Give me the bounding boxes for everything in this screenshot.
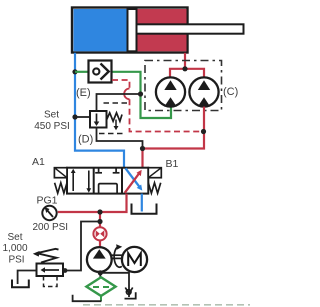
valve V1 right spring	[148, 183, 160, 193]
valve V1 left spring	[55, 183, 67, 193]
valve V1 right solenoid	[148, 168, 161, 178]
wire: red line from cylinder rod side down to motor manifold	[184, 53, 186, 69]
system relief valve vent dashed line	[44, 276, 58, 287]
valve V1 right envelope red flow arrow	[125, 174, 139, 193]
drain check glyph	[126, 290, 131, 295]
node: junction blue line / green branch	[72, 69, 77, 74]
svg-text:PG1: PG1	[37, 195, 58, 207]
relief valve D body	[90, 111, 107, 128]
svg-text:Set: Set	[7, 232, 22, 243]
cylinder cap-side fluid (blue)	[74, 9, 128, 51]
node: pump suction junction	[98, 270, 103, 275]
relief valve D drain line to red work line	[97, 128, 143, 149]
node: junction green line / relief D top line	[138, 91, 143, 96]
system relief valve outlet to tank	[18, 271, 37, 285]
svg-text:B1: B1	[166, 158, 179, 170]
reservoir boundary dash line	[83, 304, 250, 306]
piston	[128, 9, 137, 51]
wire: red motor supply manifold	[170, 69, 204, 78]
valve V1 center envelope blocked port A	[98, 168, 100, 173]
svg-text:(C): (C)	[223, 86, 238, 98]
filter F1 diamond	[86, 277, 115, 296]
filter suction stub	[100, 296, 102, 301]
wire: blue tank return below valve	[141, 194, 143, 212]
electric motor M	[122, 247, 147, 272]
node: junction pilot / red work line	[201, 129, 206, 134]
wire: red vertical pump riser	[99, 212, 101, 228]
wire: pump suction stub	[99, 272, 101, 278]
tank symbol under valve	[132, 204, 157, 214]
filter F1 element dashes	[93, 286, 110, 288]
directional valve V1 envelopes	[67, 168, 148, 194]
svg-text:A1: A1	[32, 156, 45, 168]
node: junction on red manifold	[182, 66, 187, 71]
system relief valve body	[37, 264, 64, 277]
relief valve D dashed pilot marks (bottom)	[99, 133, 125, 135]
wire: red line right motor bottom to valve B1	[143, 107, 205, 169]
wire: blue work line from cylinder cap side down to valve	[75, 53, 124, 169]
valve V1 center envelope blocked port B	[115, 168, 117, 173]
relief valve D pilot arrow below spring	[115, 120, 117, 128]
rotation arrow	[114, 247, 122, 267]
gauge PG1	[42, 206, 56, 220]
valve V1 right envelope blue flow arrow	[126, 168, 140, 187]
pilot line: red dashed from check valve E to red work line	[112, 80, 130, 89]
relief valve D spring	[107, 113, 123, 121]
valve V1 left solenoid	[54, 168, 67, 178]
cylinder rod-side fluid (red)	[137, 9, 187, 51]
valve V1 left envelope up arrow	[72, 172, 74, 191]
node: junction blue line / relief D tap	[72, 114, 77, 119]
quick disconnect coupling	[93, 227, 106, 240]
node: junction system relief tap	[97, 219, 102, 224]
system relief valve tap line	[63, 222, 100, 271]
relief valve D tap line from blue line	[75, 116, 90, 118]
relief valve D top line to green junction	[97, 94, 141, 111]
relief valve D dashed pilot marks (top)	[104, 102, 129, 104]
drain line to small tank	[100, 273, 129, 297]
motor C left	[156, 77, 185, 106]
svg-text:1,000: 1,000	[2, 243, 27, 254]
wire: green line from blue junction into check valve E	[75, 71, 89, 73]
check valve E poppet circle	[93, 68, 99, 74]
svg-text:Set: Set	[44, 110, 59, 121]
pilot line crossover hop over black line	[124, 89, 129, 100]
relief valve D internal arrow	[96, 114, 98, 123]
system relief valve internal arrow	[44, 269, 59, 271]
system relief valve spring with adjust arrow	[37, 249, 59, 263]
tank symbol (system relief)	[12, 280, 29, 288]
motor assembly enclosure box C (dash-dot)	[145, 61, 222, 111]
node: junction gauge line / pressure line	[97, 209, 102, 214]
node: vent junction	[63, 268, 68, 273]
cylinder body	[72, 8, 188, 53]
check valve E body	[89, 61, 112, 83]
node: junction relief D drain / red work line	[140, 146, 145, 151]
valve V1 center envelope P-T connector	[99, 184, 118, 194]
svg-text:(E): (E)	[76, 87, 91, 99]
drive shaft	[112, 254, 123, 256]
motor C right	[189, 77, 218, 106]
svg-text:PSI: PSI	[8, 255, 24, 266]
wire: red into pump	[99, 240, 101, 247]
pump P1	[87, 247, 112, 272]
piston rod	[137, 24, 244, 33]
wire: red pressure line from pump to valve	[58, 194, 127, 212]
wire: green line from check valve E to left motor bottom	[112, 72, 172, 118]
svg-text:(D): (D)	[78, 134, 93, 146]
svg-text:450 PSI: 450 PSI	[34, 121, 70, 132]
svg-text:200 PSI: 200 PSI	[33, 222, 69, 233]
tank symbol (drain)	[125, 292, 136, 298]
pilot line: red dashed continuing down and right to junction	[130, 99, 204, 131]
valve V1 left envelope down arrow	[88, 171, 90, 190]
tank symbol (filter suction)	[73, 295, 102, 301]
check valve E seat chevron	[101, 64, 109, 80]
